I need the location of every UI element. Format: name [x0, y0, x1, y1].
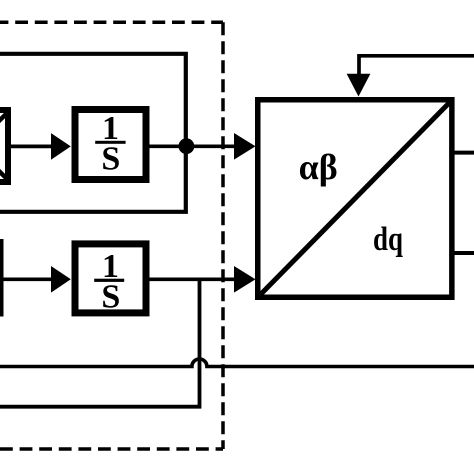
transform block diagonal: [260, 102, 451, 296]
gain block diagonal mark top: [0, 112, 8, 128]
arrowhead into integrator 1: [51, 133, 71, 160]
integrator block 1/S (row 1): [75, 110, 146, 180]
arrowhead into integrator 2: [51, 266, 71, 293]
integrator block 1/S (row 2): [75, 244, 146, 313]
transform block alpha-beta to dq: [258, 100, 452, 298]
arrowhead into transform block (alpha input): [234, 133, 256, 160]
junction dot, node alpha: [179, 138, 195, 154]
dashed boundary box: bottom edge: [0, 447, 223, 451]
wire: branch from integrator 2 output down and left: [0, 279, 200, 407]
fraction bar integrator 1: [95, 141, 125, 144]
wire: theta input from right into transform block top: [359, 56, 474, 75]
wire: d-axis output: [455, 151, 474, 155]
block right border (cut off at left edge), row 2: [0, 239, 4, 317]
svg-text:S: S: [101, 141, 120, 178]
svg-text:dq: dq: [373, 221, 403, 258]
arrowhead down into transform block top: [347, 74, 371, 97]
wire: integrator 2 output to transform block: [150, 277, 237, 281]
wire: q-axis output: [455, 251, 474, 255]
gain block diagonal mark bottom: [0, 164, 8, 180]
dashed boundary box: right edge: [221, 22, 225, 449]
wire: long bottom line with hop over vertical wire: [0, 359, 474, 367]
wire: integrator 1 output to transform block: [150, 144, 237, 148]
wire: gain block to integrator 1: [11, 145, 53, 149]
gain block (cut off at left edge), row 1: [0, 110, 8, 182]
svg-text:S: S: [101, 279, 120, 316]
svg-text:αβ: αβ: [299, 147, 338, 187]
arrowhead into transform block (beta input): [234, 266, 256, 293]
fraction bar integrator 2: [94, 279, 124, 282]
wire: into integrator 2: [4, 277, 54, 281]
feedback wire loop row 1 (up and over): [0, 54, 186, 212]
dashed boundary box: top edge: [0, 20, 223, 24]
